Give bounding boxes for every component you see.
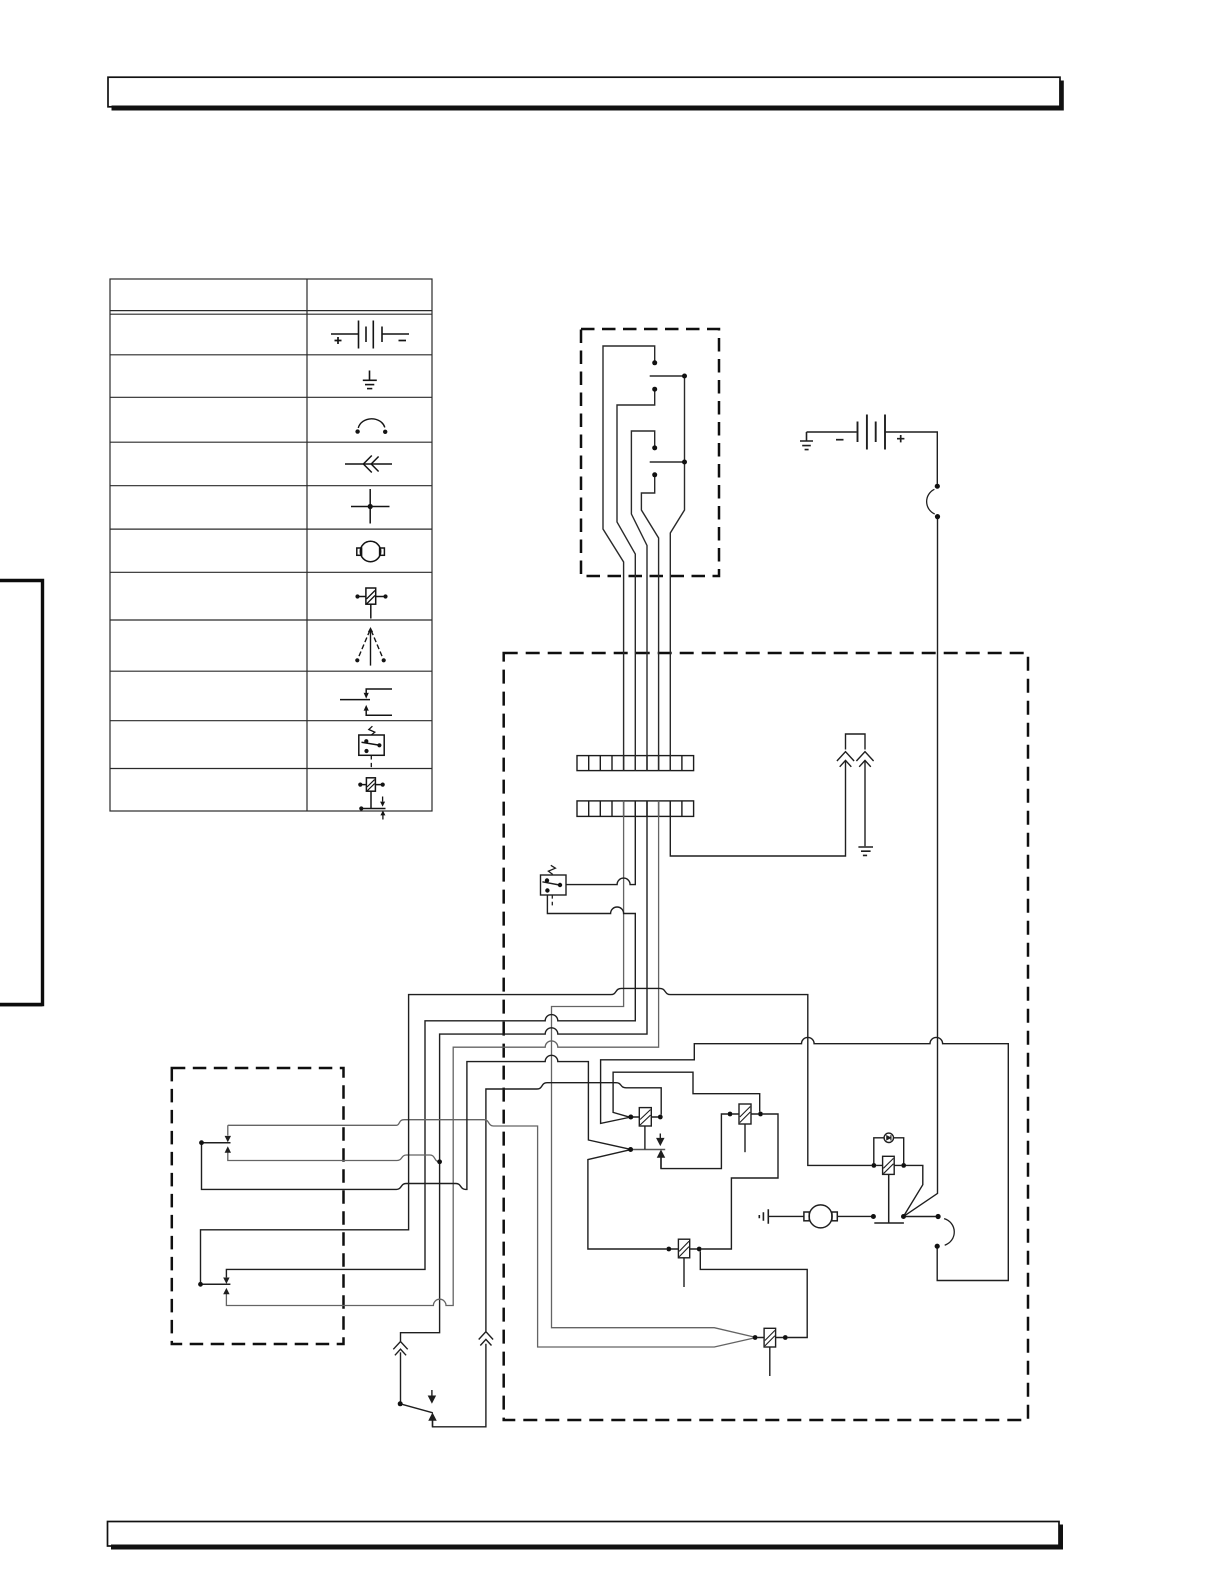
wire: lower connector to switch arm pivot <box>400 1352 402 1401</box>
contact stub of wiper B <box>650 375 685 377</box>
wire: fuse A right to main switch pivot <box>904 1165 923 1215</box>
footer title box <box>108 1522 1064 1550</box>
SW1 upper contact <box>545 878 549 882</box>
slant switch C pivot <box>628 1147 633 1152</box>
switch arc bottom <box>935 1244 940 1249</box>
SW1 lower contact <box>545 888 549 892</box>
wire: switch block upper out-line to junction on pin3 wire <box>228 1149 440 1162</box>
wire: main switch pivot to inline connector arc <box>906 1216 936 1218</box>
wire: pin3 down through junction to lower connector and switch arm <box>401 801 648 1342</box>
battery minus label mark <box>836 439 844 441</box>
fuse A body <box>876 1156 901 1174</box>
node B <box>682 374 687 379</box>
legend symbol: switch in box <box>359 726 384 767</box>
upper bar contact <box>199 1140 204 1145</box>
connector strip lower half <box>577 801 694 817</box>
contact stub of wiper E <box>650 461 685 463</box>
battery plus label mark <box>897 435 904 442</box>
wire: ground to battery negative plate <box>807 431 857 433</box>
arrow down lower terminal (switch block) <box>223 1278 229 1284</box>
dashed box: combination switch (top) <box>581 329 719 576</box>
wire: fuse C left to relay D right link <box>613 1072 760 1117</box>
fuse B left <box>666 1247 671 1252</box>
fuse D right <box>783 1335 788 1340</box>
main switch pivot <box>901 1214 906 1219</box>
fuse D left <box>753 1335 758 1340</box>
wire: riser up, jog line to fuse C right <box>486 1083 661 1332</box>
relay D left <box>728 1112 733 1117</box>
relay D right <box>758 1112 763 1117</box>
arrow up upper terminal (switch block) <box>225 1146 231 1152</box>
battery arc top <box>935 484 940 489</box>
motor M1 <box>769 1205 871 1228</box>
node D <box>652 445 657 450</box>
mating arrow down at bottom switch <box>429 1390 435 1402</box>
wire: switch contact C to connector pin2 <box>617 389 655 770</box>
ground below antenna connector <box>858 847 873 855</box>
legend symbol: fuse with terminal <box>358 778 385 820</box>
wire: switch contact A to connector pin1 <box>603 346 655 771</box>
indicator lamp over fuse A <box>874 1133 904 1163</box>
inline connector arc at main switch <box>944 1219 954 1246</box>
wire: fuse B right to fuse D right link <box>700 1251 807 1337</box>
legend symbol: battery <box>331 321 409 349</box>
key switch SW1 body <box>541 865 567 908</box>
wire: switch block upper in-line to fuse D lower throw <box>228 1120 755 1347</box>
wire: pin2 down into key switch SW1 <box>566 801 635 885</box>
node E <box>682 460 687 465</box>
wire: relay D left to mating terminal <box>661 1114 728 1169</box>
mating chevrons right pin <box>856 752 873 767</box>
dashed box: switch block (lower left) <box>172 1068 344 1344</box>
terminal bar lower (switch block) <box>201 1283 231 1285</box>
legend symbol: male-female terminal pair <box>340 689 392 715</box>
legend symbol: wire junction cross <box>351 489 390 524</box>
wire: switch contact F to connector pin4 <box>641 475 658 771</box>
wire: SW1 lower contact to switch block feed (elbow B) <box>226 891 635 1278</box>
switch arm (bottom momentary switch) <box>400 1404 433 1413</box>
terminal bar upper (switch block) <box>202 1142 231 1144</box>
wire: lower bar up and across to fuse A feed (bus A) <box>201 988 872 1284</box>
legend symbol: motor <box>357 541 385 561</box>
battery arc bottom <box>935 514 940 519</box>
relay D body <box>732 1104 758 1152</box>
ground at motor <box>759 1209 768 1224</box>
fuse A stem to main switch bar <box>874 1174 904 1223</box>
wire: switch contact D to connector pin3 <box>631 431 654 771</box>
fuse C stem <box>644 1126 646 1149</box>
node F <box>652 472 657 477</box>
ground at battery negative <box>800 432 813 450</box>
fuse D body <box>757 1328 783 1376</box>
inline connector arc on battery feed <box>927 489 935 514</box>
switch arc top <box>936 1214 941 1219</box>
wire: battery positive feed down right side <box>885 432 937 484</box>
legend table frame <box>110 279 432 811</box>
fuse B right <box>697 1247 702 1252</box>
wire: upper bar to bridge and slant switch upper throw <box>202 1055 631 1189</box>
legend symbol: ground <box>363 371 377 389</box>
arrow down upper terminal (switch block) <box>225 1136 231 1142</box>
left edge chapter tab <box>0 581 44 1006</box>
node C <box>652 387 657 392</box>
mating chevrons left pin <box>837 752 854 767</box>
fuse B body <box>671 1239 697 1287</box>
wire: bottom switch return to riser <box>433 1344 486 1427</box>
connector bracket over mating pair <box>846 734 866 750</box>
wire: pin4 down (elbow D) to switch block lower out line <box>226 801 658 1306</box>
arrow up lower terminal (switch block) <box>223 1288 229 1294</box>
legend symbol: inline connector chevrons <box>345 456 392 473</box>
lower connector chevrons on riser wire <box>479 1332 493 1346</box>
fuse C right <box>658 1115 663 1120</box>
fuse A left <box>872 1163 877 1168</box>
wire: relay D right to fuse B right <box>702 1114 778 1249</box>
node A <box>652 360 657 365</box>
legend symbol: fuse <box>355 588 387 619</box>
lower bar contact <box>198 1282 203 1287</box>
wire: right pin to ground <box>864 762 866 847</box>
lower connector chevrons on pin3 wire <box>393 1342 407 1356</box>
mating arrow up at bottom switch <box>429 1414 435 1427</box>
motor contact <box>871 1214 876 1219</box>
wire: battery feed continues to main switch pivot <box>904 519 938 1216</box>
wire: pin5 to antenna-feed connector <box>670 762 845 857</box>
header title box <box>108 77 1064 110</box>
fuse A right <box>901 1163 906 1168</box>
wire: pin1 down, across, down to fuse D upper throw <box>552 801 756 1337</box>
fuse C body <box>633 1108 658 1126</box>
mating arrow up at slant switch C <box>658 1151 664 1169</box>
dashed box: main harness area <box>504 653 1028 1420</box>
fuse C left <box>628 1115 633 1120</box>
SW1 wiper contact <box>558 883 562 887</box>
mating arrow down at slant switch C <box>657 1134 663 1145</box>
wire: slant switch C lower throw to fuse B left <box>588 1150 667 1249</box>
wire: wiper common to connector pin5 <box>670 376 684 771</box>
wire: main switch lower contact loop to slant switch left throw <box>601 1037 1009 1280</box>
connector strip upper half <box>577 756 694 771</box>
bottom switch pivot <box>398 1401 403 1406</box>
legend symbol: no-connection arc <box>355 419 387 434</box>
battery BAT1 plates <box>858 415 886 450</box>
legend symbol: wire branch arrows <box>355 627 386 666</box>
junction pin3/out-line <box>437 1159 442 1164</box>
slant switch C bar <box>631 1149 666 1151</box>
